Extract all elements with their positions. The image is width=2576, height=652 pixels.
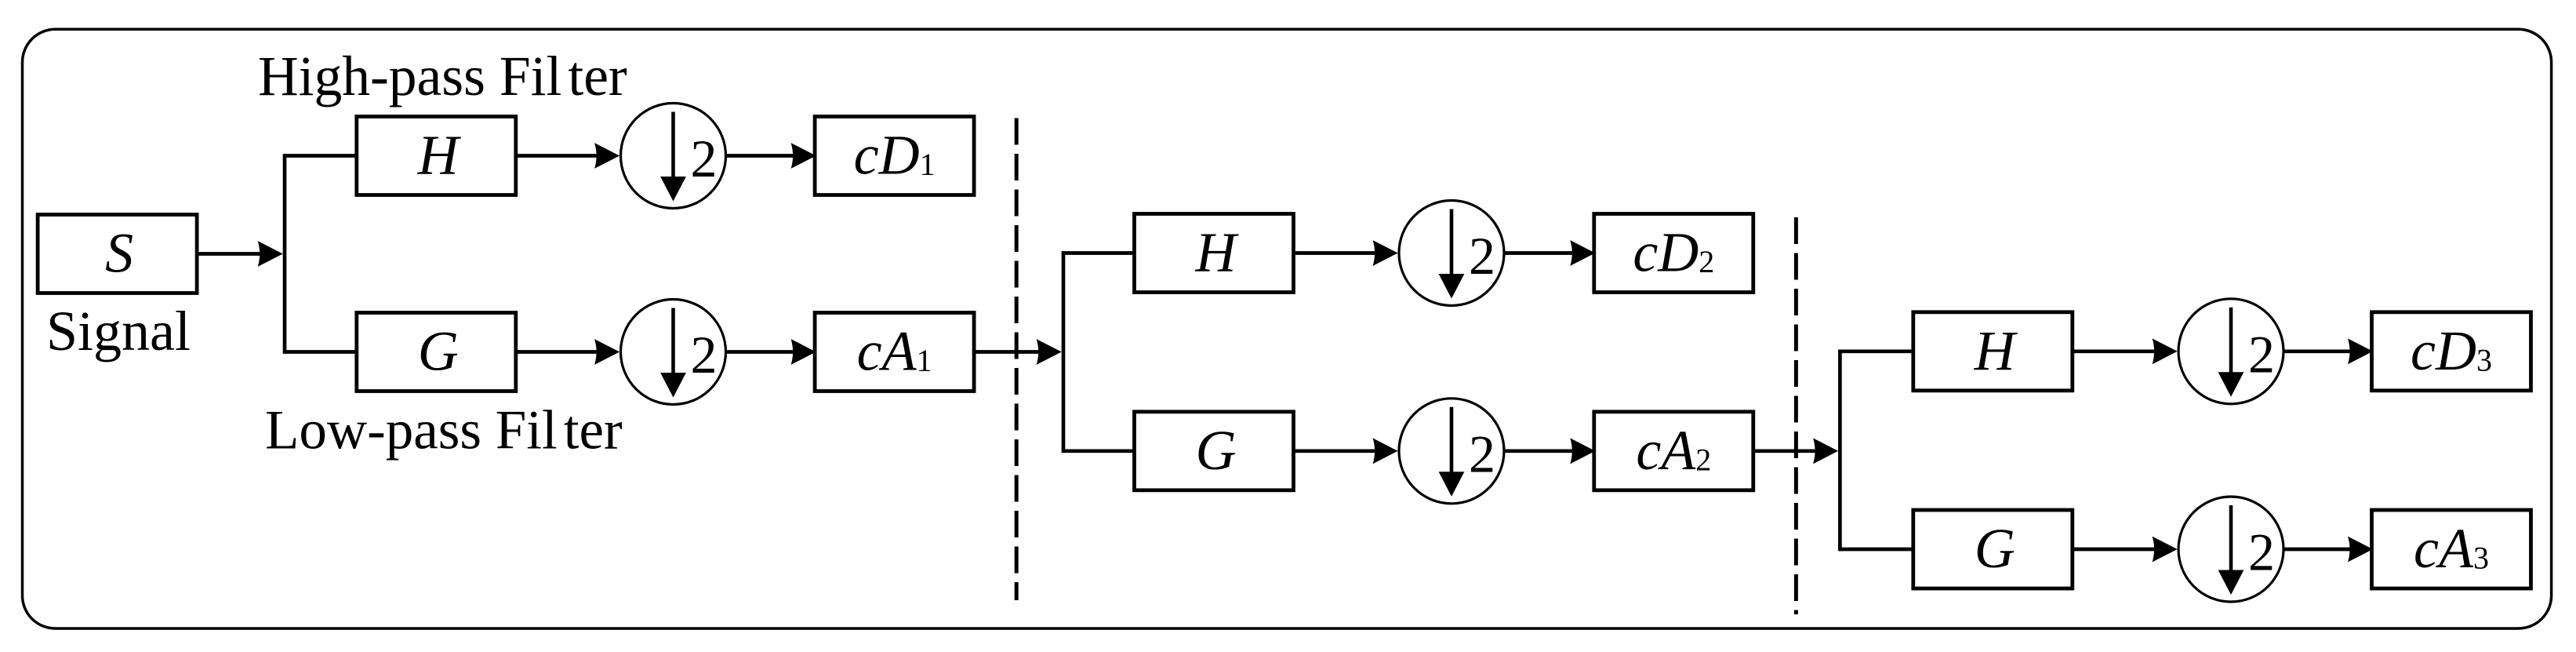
svg-text:2: 2: [691, 325, 718, 384]
svg-text:2: 2: [691, 129, 718, 188]
svg-text:G: G: [1975, 517, 2015, 580]
svg-text:H: H: [417, 124, 462, 187]
svg-text:H: H: [1974, 319, 2018, 382]
svg-text:Low-pass Filter: Low-pass Filter: [265, 400, 623, 461]
svg-text:H: H: [1195, 221, 1240, 284]
svg-text:2: 2: [2248, 324, 2275, 384]
svg-text:Signal: Signal: [46, 300, 191, 362]
svg-text:High-pass Filter: High-pass Filter: [258, 46, 627, 107]
svg-text:G: G: [418, 320, 459, 383]
svg-text:2: 2: [1469, 424, 1495, 483]
svg-text:2: 2: [2248, 523, 2275, 582]
svg-text:S: S: [105, 222, 133, 285]
svg-text:2: 2: [1469, 226, 1495, 286]
svg-text:G: G: [1196, 419, 1237, 482]
